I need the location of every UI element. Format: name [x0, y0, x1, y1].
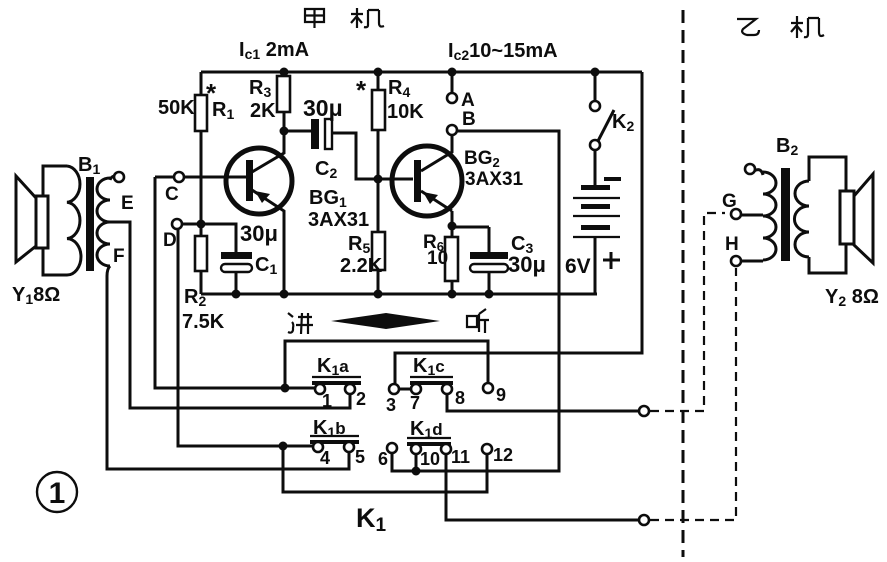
resistor R6	[445, 237, 458, 281]
svg-text:11: 11	[451, 447, 470, 467]
junction dots	[280, 68, 289, 77]
dashed wire to G	[650, 213, 725, 411]
switch K1a contact 2	[345, 384, 355, 394]
talk-listen arrow	[331, 313, 440, 329]
svg-text:F: F	[113, 246, 125, 267]
switch K1d contact 12	[482, 444, 492, 454]
svg-text:2K: 2K	[250, 100, 276, 122]
svg-text:2.2K: 2.2K	[340, 255, 383, 277]
switch K1a slider	[312, 376, 361, 378]
svg-text:3AX31: 3AX31	[465, 169, 524, 190]
wire K1a junction up and over to contact 9	[285, 341, 488, 388]
dashed separator line	[682, 10, 685, 557]
svg-text:*: *	[356, 75, 367, 105]
speaker Y1	[16, 176, 48, 262]
wire emitter node to C3	[452, 227, 489, 252]
capacitor C3	[470, 252, 508, 259]
wire top supply rail	[201, 71, 642, 74]
wire K2 to battery	[594, 150, 597, 186]
svg-text:5: 5	[355, 447, 365, 467]
svg-text:30μ: 30μ	[240, 221, 278, 246]
battery 6V	[581, 185, 610, 190]
wire C to BG1 base	[184, 176, 246, 179]
terminal H	[731, 256, 741, 266]
speaker Y2	[840, 174, 873, 263]
resistor R3	[277, 76, 290, 112]
svg-text:6V: 6V	[565, 255, 591, 278]
transformer B1 secondary winding	[97, 176, 114, 266]
switch K1b contact 5	[344, 442, 354, 452]
switch K1d contact 10	[411, 444, 421, 454]
wire inner box left C down to contact 1	[155, 177, 315, 388]
svg-text:12: 12	[493, 445, 513, 465]
svg-text:30μ: 30μ	[508, 252, 546, 277]
transformer B2 secondary winding	[794, 157, 846, 273]
svg-text:G: G	[722, 191, 737, 212]
switch K1c contact 7	[411, 384, 421, 394]
svg-text:C: C	[165, 184, 179, 205]
wire contact 10 stem	[415, 454, 418, 471]
svg-text:1: 1	[49, 477, 66, 510]
battery minus sign	[604, 177, 621, 181]
svg-text:D: D	[163, 230, 177, 251]
wire BG2 emitter to R6	[451, 211, 454, 237]
label 讲	[288, 313, 313, 334]
dashed wire to H	[650, 268, 736, 520]
transistor BG2	[392, 135, 462, 216]
terminal to B unit lower	[639, 515, 649, 525]
wire contact 8 to terminal	[447, 394, 639, 411]
svg-text:7: 7	[410, 393, 420, 413]
svg-text:6: 6	[378, 449, 388, 469]
svg-text:50K: 50K	[158, 97, 195, 119]
label 听	[467, 309, 489, 333]
wire D to R2 top junction and C1	[182, 224, 236, 252]
svg-text:1: 1	[322, 391, 332, 411]
svg-text:9: 9	[496, 385, 506, 405]
svg-text:7.5K: 7.5K	[182, 311, 225, 333]
node D	[172, 219, 182, 229]
wire K1b junction down and over to contact 12	[283, 446, 487, 492]
capacitor C1	[221, 252, 252, 259]
wire bottom rail	[201, 293, 597, 296]
transformer B2 primary winding	[741, 170, 776, 261]
switch K1d slider	[407, 437, 451, 439]
switch K1b contact 4	[313, 442, 323, 452]
transformer B1 core	[86, 177, 94, 271]
svg-text:Y18Ω: Y18Ω	[12, 284, 60, 307]
resistor R2	[200, 224, 203, 236]
wire contact 3 to 7	[398, 388, 412, 391]
switch K1d contact 6	[387, 443, 397, 453]
terminal top of B2	[745, 164, 755, 174]
transformer B1 primary winding	[43, 166, 81, 275]
switch K1c slider	[410, 376, 453, 378]
svg-text:B: B	[462, 109, 476, 130]
switch K1c contact 8	[442, 384, 452, 394]
figure number circle 1	[37, 472, 77, 512]
node B	[447, 125, 457, 135]
svg-text:H: H	[725, 234, 739, 255]
resistor R1	[195, 95, 207, 131]
terminal E	[114, 172, 124, 182]
wire rail stem to R4	[377, 72, 380, 90]
wire right rail down to contact 3	[395, 72, 642, 385]
label 乙机 title	[737, 16, 824, 38]
svg-text:4: 4	[320, 448, 330, 468]
wire R1 bottom to D junction	[200, 131, 203, 224]
transformer B2 core	[781, 168, 790, 261]
svg-text:E: E	[121, 193, 134, 214]
svg-text:10: 10	[427, 248, 448, 269]
resistor R5	[372, 232, 385, 270]
wire C2 to BG2 base	[332, 133, 413, 179]
svg-text:10: 10	[420, 449, 440, 469]
node C	[174, 172, 184, 182]
svg-text:2: 2	[356, 389, 366, 409]
switch K1a contact 1	[315, 384, 325, 394]
wire rail stem to switch K2	[594, 72, 597, 101]
switch K1d contact 11	[441, 444, 451, 454]
terminal G	[731, 209, 741, 219]
switch K1c contact 3	[389, 384, 399, 394]
svg-text:A: A	[461, 90, 475, 111]
label 甲机 title	[305, 8, 384, 28]
capacitor C2	[311, 119, 319, 149]
switch K1b slider	[310, 435, 359, 437]
svg-text:10K: 10K	[387, 101, 424, 123]
wire rail stem to R3	[283, 72, 286, 76]
switch K2	[590, 101, 600, 111]
wire rail stem to node A	[451, 72, 454, 93]
switch K1c contact 9	[483, 383, 493, 393]
wire contact 11 to lower terminal	[446, 454, 639, 520]
terminal to B unit upper	[639, 406, 649, 416]
svg-text:3: 3	[386, 395, 396, 415]
node A	[447, 93, 457, 103]
svg-text:30μ: 30μ	[303, 95, 343, 121]
svg-text:Y2 8Ω: Y2 8Ω	[825, 286, 879, 309]
wire node B right and down to contacts 6 and 10	[392, 131, 559, 471]
resistor R4	[372, 90, 385, 130]
svg-text:8: 8	[455, 388, 465, 408]
battery plus sign	[603, 252, 620, 269]
wire R3 bottom to capacitor C2	[284, 130, 312, 133]
wire battery to bottom rail	[594, 238, 597, 294]
wire B1 middle tap down to contact 2	[110, 222, 350, 408]
wire R4 bottom to R5	[377, 179, 380, 232]
svg-text:3AX31: 3AX31	[308, 209, 369, 231]
wire B1 winding bottom down to contact 5	[107, 266, 349, 469]
transistor BG1	[226, 131, 292, 294]
wire left rail upper to R1	[200, 72, 203, 95]
wire D down to contact 4	[178, 229, 314, 446]
